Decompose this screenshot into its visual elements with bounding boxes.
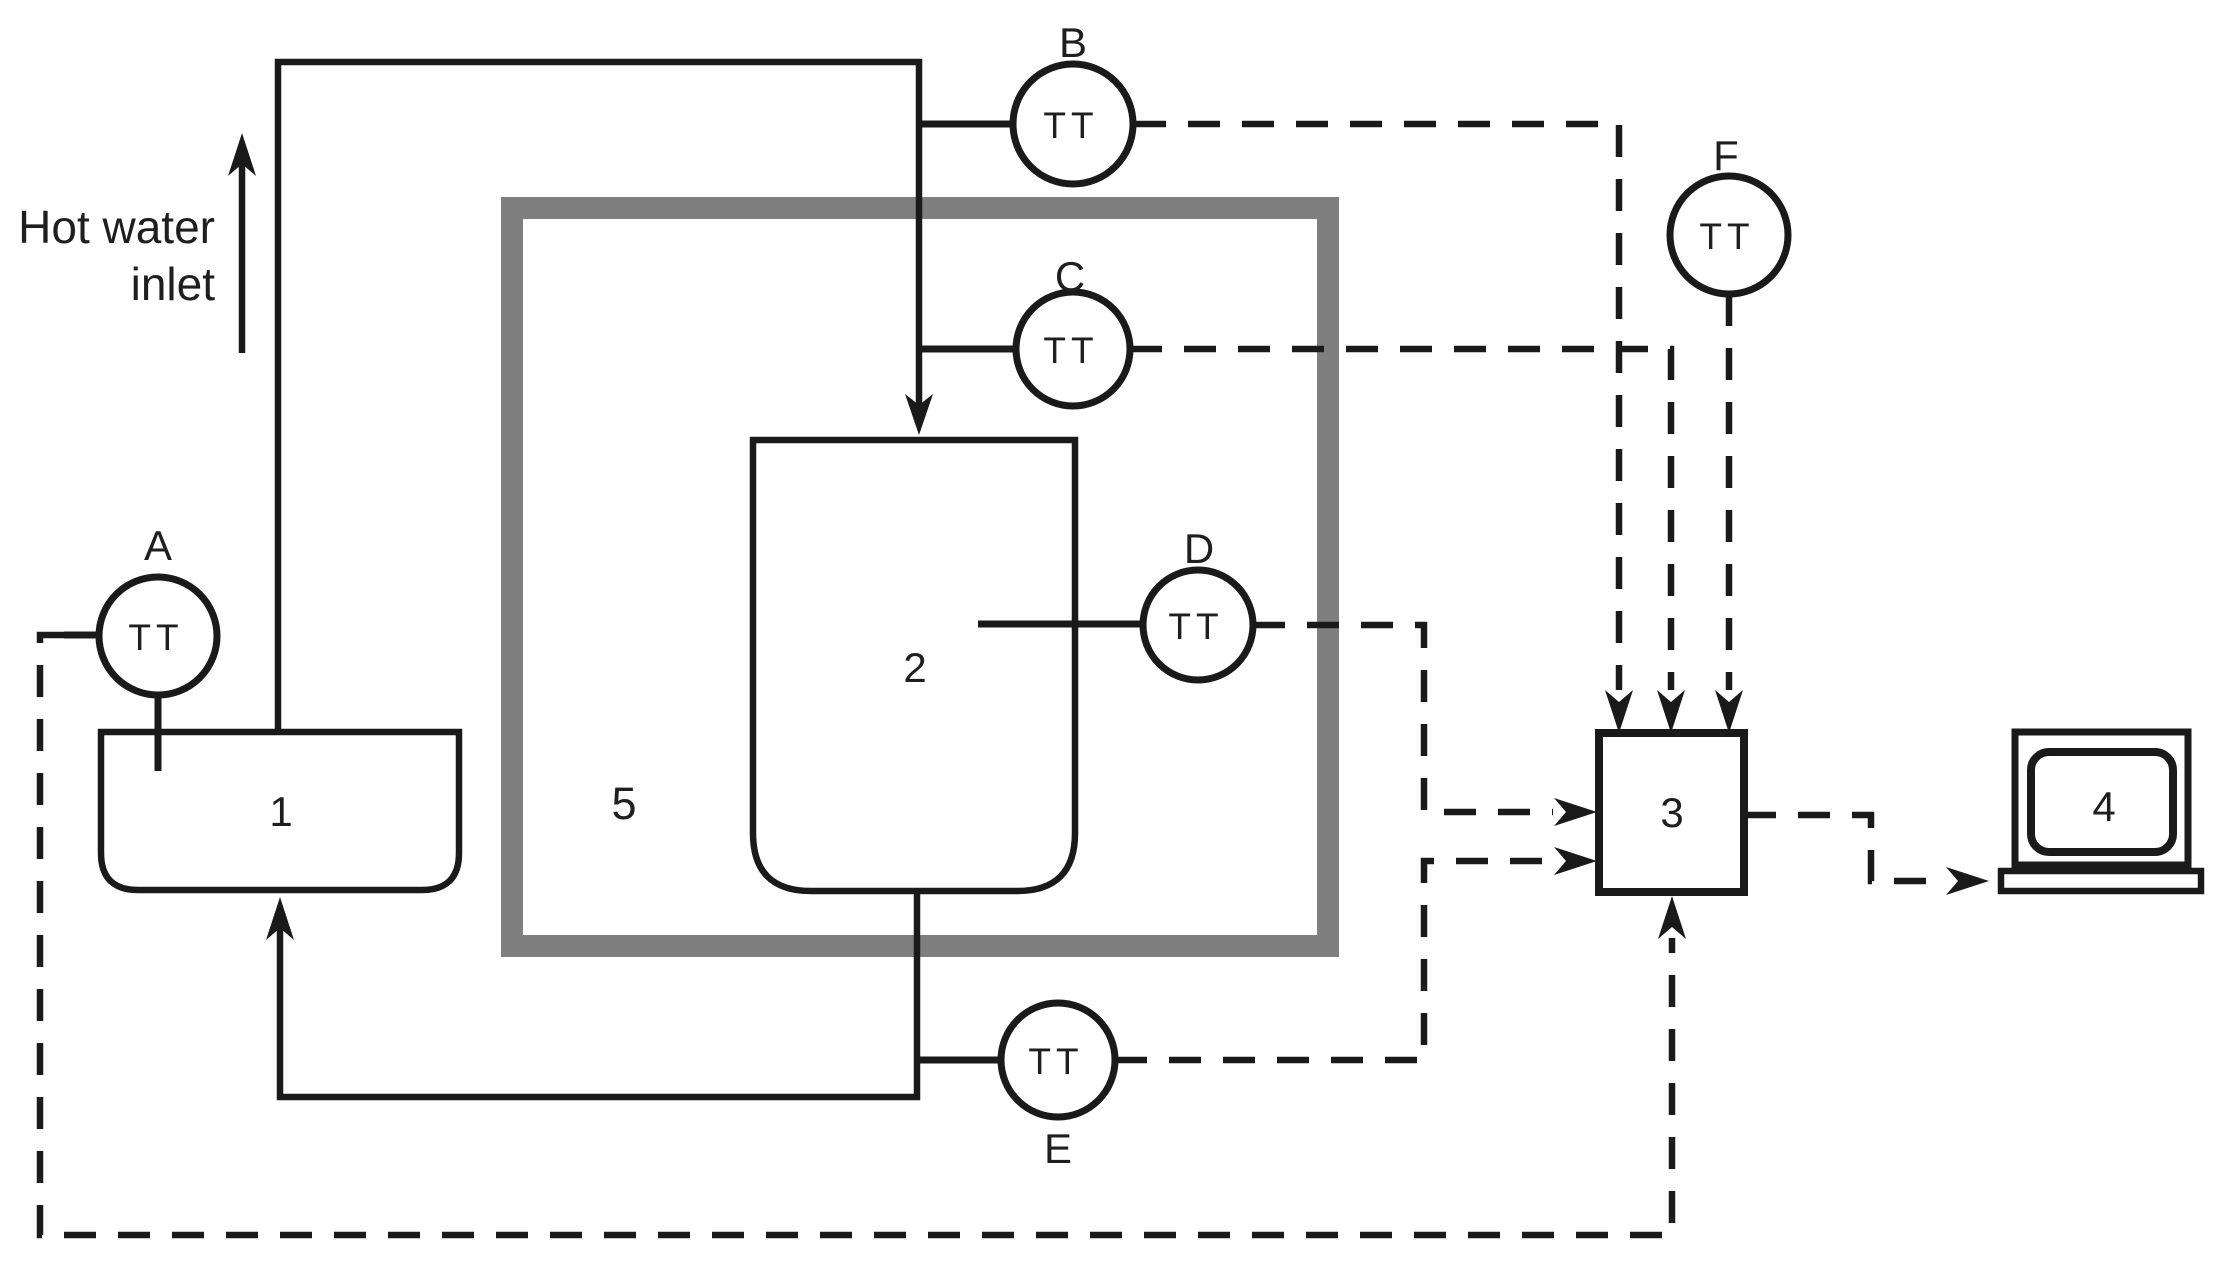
- signal wire F to DAQ 3: [1726, 294, 1733, 690]
- computer 4 (laptop): [2015, 732, 2188, 865]
- arrow D-signal into DAQ 3 left: [1554, 798, 1597, 826]
- svg-text:TT: TT: [1043, 330, 1098, 371]
- svg-text:F: F: [1713, 132, 1739, 179]
- svg-text:B: B: [1059, 19, 1087, 66]
- svg-text:5: 5: [611, 778, 636, 829]
- signal wire D to DAQ 3 left upper: [1253, 625, 1553, 812]
- svg-text:TT: TT: [1168, 606, 1223, 647]
- arrow A-signal into DAQ 3 bottom: [1658, 896, 1686, 939]
- signal wire C to DAQ 3: [1130, 349, 1671, 690]
- arrow F-signal into DAQ 3 top: [1715, 690, 1743, 733]
- arrow into vessel 2 inlet: [905, 394, 933, 435]
- svg-text:TT: TT: [1699, 216, 1754, 257]
- svg-text:C: C: [1055, 253, 1085, 300]
- arrow C-signal into DAQ 3 top: [1657, 690, 1685, 733]
- hot water inlet arrow: [239, 162, 246, 353]
- wire: hot water supply pipe (tank 1 top riser, across top, down to vessel 2): [278, 62, 919, 732]
- svg-text:TT: TT: [128, 617, 183, 658]
- svg-text:Hot water: Hot water: [18, 201, 215, 253]
- DAQ box 3: [1599, 733, 1744, 892]
- svg-text:TT: TT: [1043, 105, 1098, 146]
- arrow into tank 1 bottom: [266, 897, 294, 940]
- svg-text:2: 2: [903, 644, 926, 691]
- svg-text:E: E: [1044, 1125, 1072, 1172]
- svg-text:TT: TT: [1028, 1041, 1083, 1082]
- temperature transmitter B: [919, 121, 1014, 128]
- svg-text:1: 1: [269, 788, 292, 835]
- tank 1 (water bath): [101, 732, 459, 890]
- temperature transmitter F: [1670, 176, 1788, 294]
- svg-text:3: 3: [1660, 789, 1683, 836]
- temperature transmitter E: [917, 1057, 1001, 1064]
- temperature transmitter D: [978, 621, 1143, 628]
- svg-text:D: D: [1184, 525, 1214, 572]
- signal wire B to DAQ 3: [1134, 124, 1619, 690]
- temperature transmitter C: [919, 346, 1016, 353]
- vessel 2 (beaker in chamber): [753, 440, 1075, 891]
- signal wire DAQ 3 to computer 4: [1744, 815, 1944, 881]
- svg-text:inlet: inlet: [131, 258, 216, 310]
- svg-text:4: 4: [2092, 783, 2115, 830]
- temperature transmitter A: [155, 695, 162, 771]
- wire: vessel 2 outlet pipe down, left, up into tank 1: [280, 891, 917, 1097]
- arrow E-signal into DAQ 3 left: [1554, 847, 1597, 875]
- signal wire A to DAQ 3 (left, down, along bottom, up): [40, 635, 1672, 1235]
- arrow into computer 4: [1946, 867, 1989, 895]
- signal wire E to DAQ 3 left lower: [1115, 861, 1553, 1060]
- svg-text:A: A: [144, 522, 172, 569]
- enclosure 5 (gray heating chamber frame): [512, 208, 1328, 946]
- arrow B-signal into DAQ 3 top: [1605, 690, 1633, 733]
